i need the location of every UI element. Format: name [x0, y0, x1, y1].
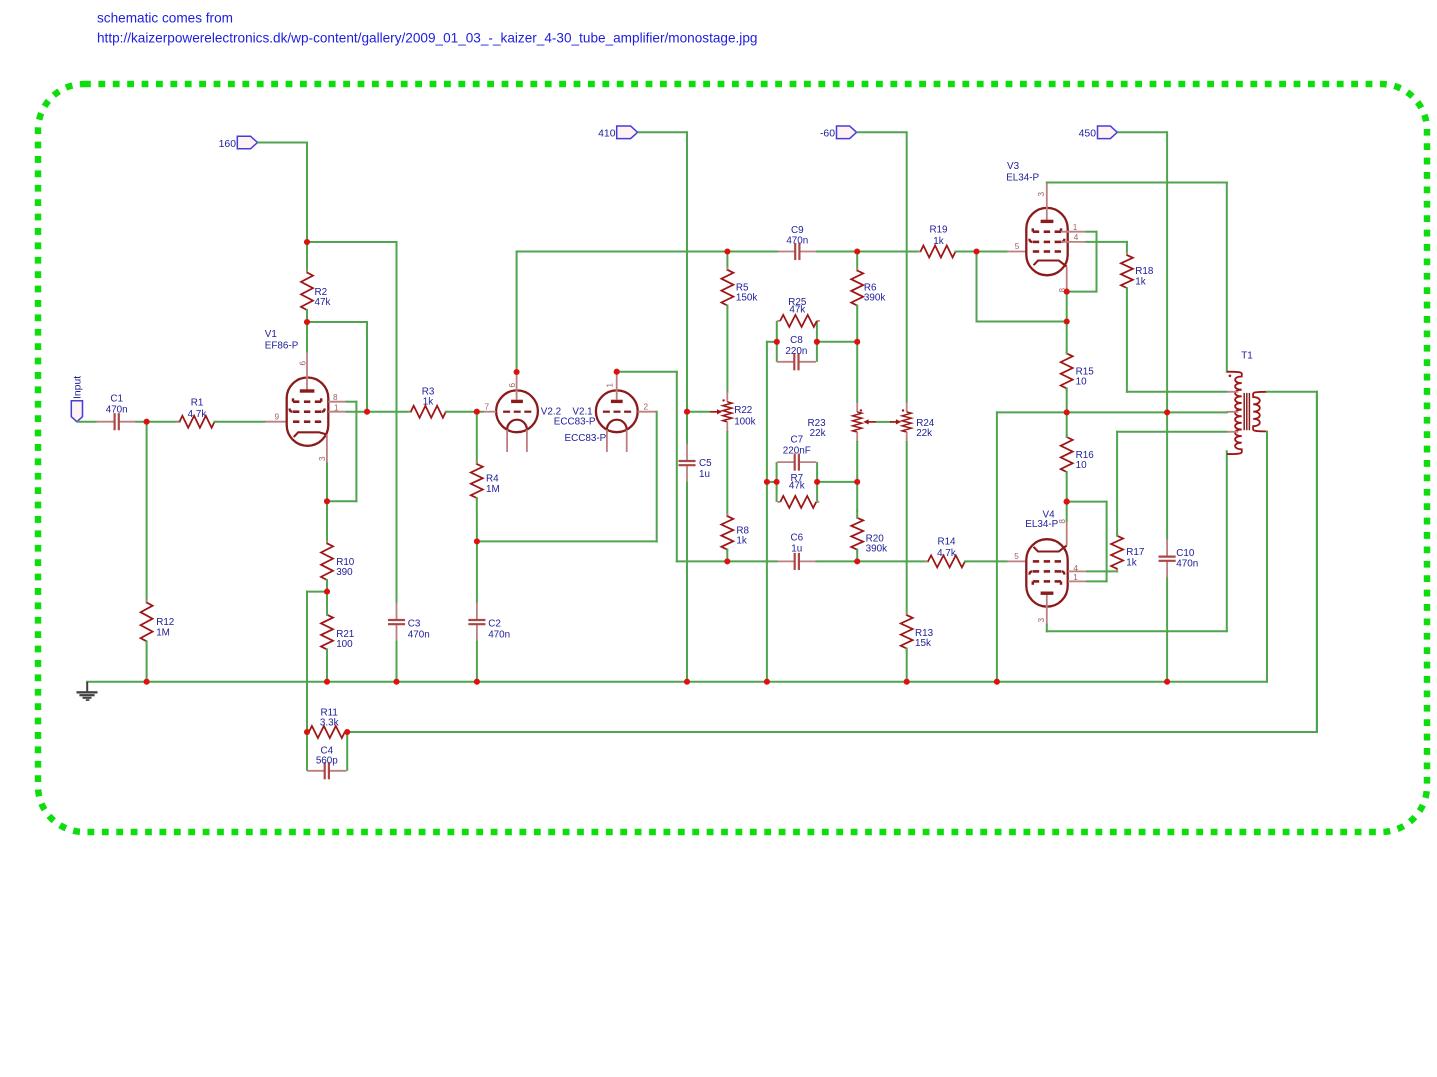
capacitor C7 [777, 454, 816, 471]
wire [856, 511, 858, 518]
resistor R11 [306, 726, 348, 738]
wire [906, 649, 908, 682]
label R19 [929, 225, 948, 247]
wire [686, 132, 688, 411]
junction [973, 248, 979, 254]
pin 5 lead V3 [1007, 242, 1026, 251]
svg-text:1k: 1k [423, 397, 433, 408]
svg-text:450: 450 [1079, 129, 1097, 140]
tube V4 g1 row [1033, 560, 1061, 563]
pin 1 lead V1 [328, 404, 346, 413]
wire [146, 641, 148, 681]
svg-text:http://kaizerpowerelectronics.: http://kaizerpowerelectronics.dk/wp-cont… [97, 31, 757, 46]
label R23 [807, 418, 826, 439]
tube V1 body [287, 378, 329, 446]
junction [764, 479, 770, 485]
svg-text:410: 410 [598, 129, 616, 140]
tube V2.1 body [596, 390, 638, 432]
capacitor C9 [778, 243, 817, 260]
svg-text:C5: C5 [699, 458, 712, 469]
svg-text:1M: 1M [156, 627, 170, 638]
svg-text:V3: V3 [1007, 161, 1020, 172]
resistor R5 [721, 267, 733, 309]
wire [446, 411, 483, 413]
svg-text:4: 4 [1074, 564, 1079, 573]
label R6 [864, 282, 885, 303]
junction [144, 679, 150, 685]
svg-text:C3: C3 [408, 618, 421, 629]
resistor R20 [851, 515, 863, 553]
svg-text:3: 3 [1037, 618, 1046, 623]
label C9 [786, 225, 808, 247]
wire [977, 321, 1067, 323]
wire [906, 442, 908, 615]
resistor R19 [918, 246, 959, 258]
wire [817, 481, 857, 483]
tube V2.1 anode stub [605, 372, 616, 400]
svg-text:C2: C2 [488, 618, 501, 629]
wire [1116, 569, 1118, 572]
wire [906, 132, 908, 402]
resistor R21 [321, 612, 333, 653]
resistor R3 [408, 406, 449, 418]
label R5 [736, 282, 757, 303]
tube V4 cathode [1034, 546, 1067, 552]
wire [1117, 431, 1227, 433]
junction [304, 239, 310, 245]
label R21 [336, 629, 355, 650]
wire [326, 592, 328, 615]
junction [774, 339, 780, 345]
wire [347, 731, 1317, 733]
label R25 [788, 297, 807, 316]
svg-text:560p: 560p [316, 756, 338, 767]
svg-text:EL34-P: EL34-P [1025, 519, 1058, 530]
junction [393, 679, 399, 685]
wire [306, 242, 308, 273]
pin 2 lead V2.1 [638, 403, 657, 412]
capacitor C10 [1159, 539, 1176, 578]
junction [814, 339, 820, 345]
wire [956, 251, 1007, 253]
wire [1266, 431, 1268, 433]
label R17 [1126, 547, 1144, 568]
resistor R15 [1061, 350, 1073, 391]
wire [517, 251, 778, 253]
svg-text:3.3k: 3.3k [320, 718, 339, 729]
transformer T1 primary [1227, 372, 1242, 454]
wire [996, 412, 998, 681]
label C2 [488, 618, 510, 640]
svg-text:T1: T1 [1241, 351, 1253, 362]
svg-text:4: 4 [1074, 233, 1079, 242]
label R14 [937, 537, 956, 560]
tube V1 g1 row [293, 420, 321, 423]
pin 4 lead V3 [1061, 233, 1087, 242]
svg-text:470n: 470n [786, 236, 808, 247]
wire [326, 649, 328, 681]
svg-text:390: 390 [336, 567, 353, 578]
wire [306, 592, 308, 732]
tube V3 g2 row [1029, 239, 1064, 242]
label T1 [1241, 351, 1253, 362]
wire [817, 341, 857, 343]
svg-text:R1: R1 [191, 398, 204, 409]
label C4 [316, 746, 338, 767]
label V2.1 [554, 406, 596, 427]
svg-text:1u: 1u [791, 544, 802, 555]
wire [1066, 322, 1068, 354]
wire [1106, 502, 1108, 582]
junction [304, 729, 310, 735]
wire [1116, 432, 1118, 536]
wire [767, 481, 777, 483]
wire [686, 412, 688, 444]
wire [516, 252, 518, 373]
svg-text:9: 9 [275, 413, 280, 422]
svg-text:6: 6 [299, 361, 308, 366]
resistor R12 [141, 600, 153, 645]
tube V3 g3 row [1033, 228, 1061, 231]
resistor R23 (trimmer) [853, 402, 863, 442]
pin 9 lead V1 [265, 413, 287, 422]
R23 wiper arrow [863, 419, 877, 424]
label V2.2 [541, 406, 607, 444]
resistor R13 [901, 612, 913, 651]
pin 8 lead V1 [328, 393, 346, 402]
junction [324, 498, 330, 504]
wire [306, 322, 308, 352]
capacitor C8 [777, 353, 816, 370]
wire [1087, 241, 1127, 243]
label C7 [783, 435, 811, 457]
svg-text:47k: 47k [315, 297, 331, 308]
svg-text:22k: 22k [810, 428, 826, 439]
svg-text:1k: 1k [1135, 276, 1145, 287]
svg-text:ECC83-P: ECC83-P [565, 433, 607, 444]
svg-text:6: 6 [508, 383, 517, 388]
resistor R25 [777, 315, 820, 327]
svg-text:2: 2 [644, 403, 649, 412]
svg-text:C6: C6 [790, 532, 803, 543]
svg-text:8: 8 [333, 393, 338, 402]
capacitor C3 [388, 602, 405, 641]
junction [514, 369, 520, 375]
T1 polarity dot [1229, 375, 1232, 378]
wire [1066, 502, 1068, 522]
tube V1 g2 row [290, 409, 325, 412]
svg-text:15k: 15k [915, 638, 931, 649]
label R1 [188, 398, 207, 420]
label R3 [422, 387, 435, 408]
wire [215, 421, 266, 423]
svg-text:7: 7 [485, 403, 490, 412]
wire [1127, 391, 1227, 393]
R22 wiper arrow [709, 409, 722, 414]
svg-text:3: 3 [318, 456, 327, 461]
pin 4 lead V4 [1068, 564, 1087, 573]
resistor R8 [721, 513, 733, 553]
svg-text:470n: 470n [408, 629, 430, 640]
svg-text:1: 1 [1073, 223, 1078, 232]
label R7 [789, 473, 805, 491]
svg-text:1M: 1M [486, 484, 500, 495]
wire [676, 372, 678, 562]
wire [307, 321, 367, 323]
junction [1164, 409, 1170, 415]
tube V4 pin8 stub [1058, 519, 1067, 546]
wire [1067, 501, 1107, 503]
wire [1226, 183, 1228, 372]
wire [1266, 432, 1268, 682]
svg-text:4.7k: 4.7k [188, 409, 207, 420]
label V4 [1025, 509, 1058, 530]
wire [476, 412, 478, 464]
wire [965, 560, 1007, 562]
capacitor C4 [307, 762, 346, 779]
tube V1 anode [300, 352, 315, 392]
wire [686, 483, 688, 682]
label C8 [785, 335, 807, 357]
wire [656, 412, 658, 542]
junction [854, 558, 860, 564]
junction [364, 409, 370, 415]
wire [776, 321, 778, 362]
T1 primary tap center [1227, 411, 1239, 413]
tube V4 g2 row [1029, 571, 1064, 574]
power flag -60 [820, 126, 857, 140]
resistor R2 [301, 270, 313, 314]
svg-text:8: 8 [1058, 519, 1067, 524]
label C1 [106, 393, 128, 415]
svg-text:EL34-P: EL34-P [1006, 173, 1039, 184]
junction [324, 589, 330, 595]
svg-text:1k: 1k [1126, 557, 1136, 568]
svg-text:C1: C1 [110, 393, 123, 404]
resistor R4 [471, 461, 483, 501]
junction [324, 679, 330, 685]
svg-text:390k: 390k [866, 544, 887, 555]
svg-text:R14: R14 [937, 537, 956, 548]
svg-text:160: 160 [219, 139, 237, 150]
svg-text:390k: 390k [864, 293, 885, 304]
tube V2.2 anode stub [508, 372, 517, 400]
wire [366, 322, 368, 412]
junction [724, 248, 730, 254]
pin 1 lead V4 [1068, 573, 1087, 582]
svg-text:5: 5 [1014, 552, 1019, 561]
svg-text:3: 3 [1037, 192, 1046, 197]
wire [857, 131, 907, 133]
resistor R7 [777, 496, 819, 508]
junction [474, 538, 480, 544]
svg-text:100k: 100k [734, 417, 755, 428]
junction [684, 409, 690, 415]
svg-text:470n: 470n [488, 629, 510, 640]
wire [1226, 451, 1228, 631]
label R4 [486, 474, 500, 495]
wire [1047, 182, 1227, 184]
resistor R18 [1121, 252, 1133, 291]
power flag 450 [1079, 126, 1118, 140]
svg-text:47k: 47k [789, 305, 805, 316]
wire [258, 142, 308, 144]
resistor R16 [1061, 434, 1073, 475]
svg-text:C9: C9 [791, 225, 804, 236]
R24 wiper arrow [890, 419, 901, 424]
label R16 [1076, 450, 1095, 471]
label V3 [1006, 161, 1039, 184]
wire [726, 432, 728, 516]
junction [144, 419, 150, 425]
resistor R17 [1111, 533, 1123, 572]
wire [617, 371, 677, 373]
ground bus wire [87, 681, 1267, 683]
tube V4 anode [1037, 593, 1053, 625]
wire [476, 498, 478, 541]
label R24 [916, 418, 935, 439]
wire [306, 732, 308, 771]
svg-text:470n: 470n [106, 405, 128, 416]
power flag 160 [219, 136, 258, 150]
label C5 [699, 458, 712, 480]
resistor R22 (trimmer) [722, 392, 732, 432]
wire [1066, 472, 1068, 502]
svg-text:1k: 1k [933, 236, 943, 247]
tube V2.2 internals [503, 401, 531, 452]
wire [1316, 392, 1318, 732]
transformer T1 secondary [1253, 392, 1267, 432]
wire [1117, 131, 1167, 133]
junction [854, 248, 860, 254]
junction [474, 679, 480, 685]
ground [77, 682, 98, 701]
wire [976, 252, 978, 322]
wire [355, 402, 357, 502]
wire [766, 342, 768, 482]
tube V4 g3 row [1033, 581, 1061, 584]
wire [1067, 291, 1097, 293]
wire [766, 482, 768, 682]
wire [1087, 580, 1107, 582]
wire [1066, 388, 1068, 412]
svg-text:-60: -60 [820, 129, 835, 140]
svg-text:220nF: 220nF [783, 445, 811, 456]
svg-text:47k: 47k [789, 480, 805, 491]
wire [1166, 132, 1168, 412]
resistor R24 (trimmer) [902, 402, 912, 442]
wire [477, 540, 657, 542]
tube V2.1 internals [603, 401, 631, 452]
svg-text:10: 10 [1076, 377, 1087, 388]
tube V3 cathode [1034, 261, 1067, 267]
wire [1046, 625, 1048, 632]
wire [306, 143, 308, 243]
wire [638, 131, 687, 133]
wire [816, 462, 818, 502]
svg-text:1: 1 [334, 404, 339, 413]
label R22 [734, 405, 755, 428]
wire [326, 580, 328, 592]
tube V3 g1 row [1033, 250, 1061, 253]
svg-text:R19: R19 [929, 225, 948, 236]
wire [1087, 231, 1097, 233]
svg-text:V1: V1 [265, 329, 278, 340]
wire [307, 241, 397, 243]
wire [877, 421, 890, 423]
svg-text:10: 10 [1076, 460, 1087, 471]
wire [1066, 412, 1068, 437]
svg-text:150k: 150k [736, 293, 757, 304]
wire [677, 560, 777, 562]
pin 7 lead V2.2 [483, 403, 496, 412]
wire [856, 342, 858, 402]
svg-text:4.7k: 4.7k [937, 548, 956, 559]
svg-text:1: 1 [1073, 573, 1078, 582]
tube V3 body [1026, 208, 1067, 275]
junction [1064, 318, 1070, 324]
wire [1047, 630, 1227, 632]
junction [904, 679, 910, 685]
text header line1 [97, 11, 233, 26]
wire [1166, 578, 1168, 681]
label R18 [1135, 266, 1154, 287]
wire [306, 310, 308, 322]
svg-text:R22: R22 [734, 405, 752, 416]
wire [307, 591, 327, 593]
resistor R6 [851, 268, 863, 309]
wire [767, 341, 777, 343]
junction [344, 729, 350, 735]
svg-text:C8: C8 [790, 335, 803, 346]
wire [726, 306, 728, 392]
junction [724, 558, 730, 564]
wire [856, 252, 858, 271]
junction [994, 679, 1000, 685]
wire [396, 642, 398, 682]
junction [1164, 679, 1170, 685]
wire [1126, 288, 1128, 392]
label R12 [156, 617, 174, 638]
wire [726, 550, 728, 562]
wire [1267, 391, 1317, 393]
wire [1167, 411, 1227, 413]
wire [856, 442, 858, 511]
capacitor C5 [678, 443, 695, 482]
wire [856, 306, 858, 342]
tube V3 anode [1037, 183, 1054, 222]
tube V1 g3 row [293, 398, 321, 401]
wire [346, 732, 348, 771]
wire [396, 242, 398, 602]
svg-text:1k: 1k [736, 536, 746, 547]
junction [764, 679, 770, 685]
wire [817, 251, 921, 253]
wire [1087, 570, 1117, 572]
T1 primary tap upper [1227, 391, 1239, 393]
wire [816, 321, 818, 362]
wire [1316, 392, 1318, 732]
pin 1 lead V3 [1061, 223, 1087, 232]
label C6 [790, 532, 803, 554]
resistor R14 [925, 555, 968, 567]
wire [997, 411, 1067, 413]
junction [774, 479, 780, 485]
svg-text:EF86-P: EF86-P [265, 341, 299, 352]
wire [476, 642, 478, 682]
transformer T1 core [1244, 393, 1249, 430]
junction [814, 479, 820, 485]
